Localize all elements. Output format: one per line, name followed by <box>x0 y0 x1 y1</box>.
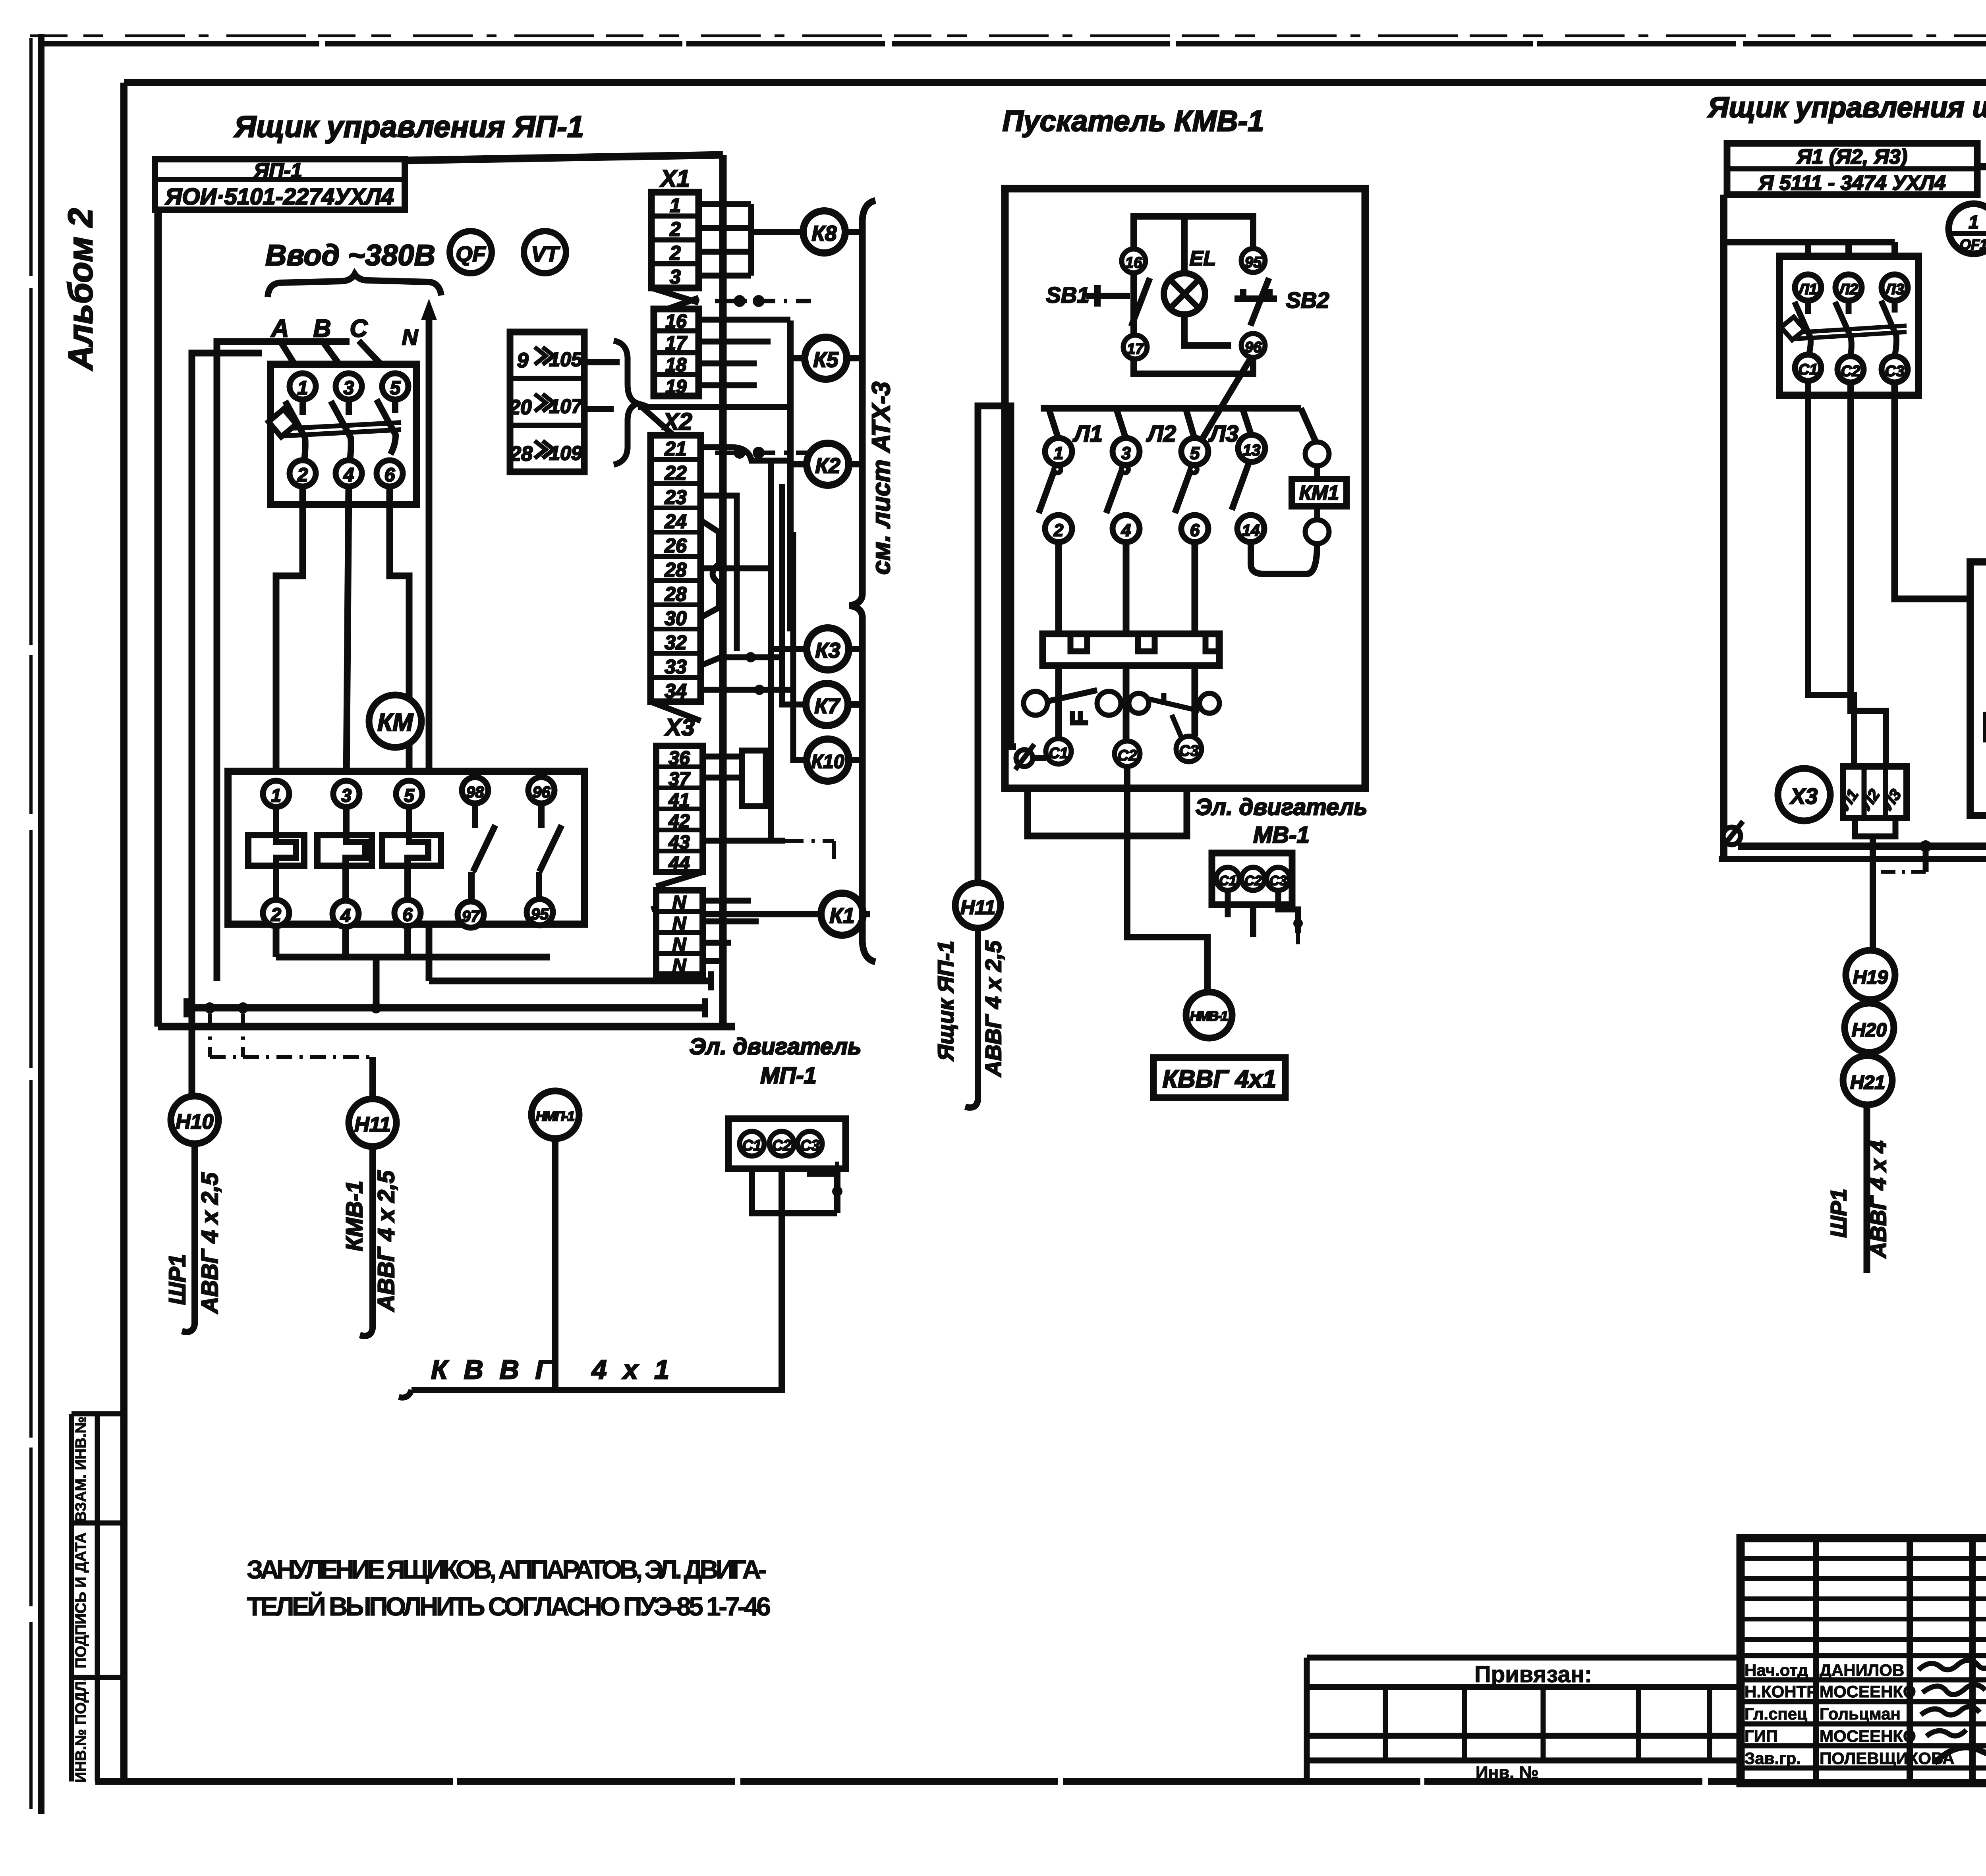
cable KVVG 4x1 run <box>399 1169 782 1397</box>
motor MV-1 title <box>1195 794 1367 848</box>
svg-text:5: 5 <box>390 378 401 399</box>
svg-text:Н19: Н19 <box>1853 967 1888 988</box>
breaker QF1 circle <box>1949 204 1986 254</box>
signature column texts <box>1745 1661 1955 1768</box>
svg-text:Ящик управления ЯП-1: Ящик управления ЯП-1 <box>234 110 584 144</box>
svg-text:Я 5111 - 3474 УХЛ4: Я 5111 - 3474 УХЛ4 <box>1758 172 1945 195</box>
KM terminals top <box>263 777 554 807</box>
lamp H19 <box>1846 950 1895 1000</box>
svg-text:6: 6 <box>384 465 395 486</box>
lamp H11 <box>342 1099 399 1336</box>
wire fuse to H19 <box>1870 836 1876 950</box>
svg-text:X3: X3 <box>1789 784 1818 809</box>
svg-text:95: 95 <box>1245 254 1262 271</box>
svg-text:К10: К10 <box>811 751 844 772</box>
contactor KM1 box <box>1970 562 1986 816</box>
svg-text:13: 13 <box>1243 442 1261 459</box>
svg-text:N: N <box>402 324 419 349</box>
svg-text:6: 6 <box>1190 521 1200 540</box>
N collector <box>429 971 711 990</box>
svg-text:Н.КОНТР.: Н.КОНТР. <box>1745 1682 1820 1701</box>
svg-text:Альбом 2: Альбом 2 <box>62 208 100 371</box>
svg-text:1: 1 <box>1969 212 1979 232</box>
thermal relay block <box>1043 634 1219 666</box>
QF pole terminals top 1 3 5 <box>290 373 408 400</box>
terminal strip X3 <box>651 714 703 977</box>
svg-text:Л3: Л3 <box>1884 281 1904 298</box>
svg-text:36: 36 <box>668 748 690 769</box>
svg-text:МВ-1: МВ-1 <box>1253 822 1310 848</box>
svg-text:Л2: Л2 <box>1838 281 1858 298</box>
svg-text:АВВГ 4 х 2,5: АВВГ 4 х 2,5 <box>197 1172 223 1314</box>
QF blades <box>269 400 401 460</box>
KM coil 1 <box>248 807 304 900</box>
KM aux contact 96-95 <box>539 803 562 899</box>
svg-text:С1: С1 <box>1049 745 1068 762</box>
QF1 terminals bottom <box>1795 355 1908 382</box>
wire 96 to pole 5 <box>1202 357 1251 440</box>
svg-text:МОСЕЕНКО: МОСЕЕНКО <box>1820 1682 1916 1701</box>
starter title KMV-1 <box>1003 104 1264 137</box>
svg-text:Л1: Л1 <box>1072 421 1103 447</box>
cable dashdot junction <box>715 295 811 459</box>
svg-text:X2: X2 <box>662 408 692 435</box>
svg-text:С3: С3 <box>1885 363 1905 380</box>
svg-text:ЯП-1: ЯП-1 <box>253 159 302 182</box>
transformer VT circle <box>524 231 566 273</box>
svg-text:Л3: Л3 <box>1208 421 1238 447</box>
svg-text:Зав.гр.: Зав.гр. <box>1745 1749 1801 1768</box>
dashdot drops to lamps <box>210 1013 373 1099</box>
svg-text:28: 28 <box>664 583 687 605</box>
relay stubs to cable line <box>845 232 870 914</box>
svg-text:К5: К5 <box>813 348 838 372</box>
feeder from YaP-1 <box>978 406 1016 883</box>
svg-text:Ящик ЯП-1: Ящик ЯП-1 <box>933 941 958 1062</box>
contact terminals row 2 <box>1045 515 1264 542</box>
breaker QF circle <box>450 231 492 273</box>
svg-text:КМ: КМ <box>377 709 413 736</box>
svg-text:ВЗАМ. ИНВ.№: ВЗАМ. ИНВ.№ <box>73 1417 89 1522</box>
KM coil 3 <box>382 807 441 900</box>
svg-text:2: 2 <box>669 218 681 240</box>
signatures <box>1918 1660 1986 1771</box>
album label <box>62 208 100 371</box>
svg-text:см. лист АТХ-3: см. лист АТХ-3 <box>867 382 895 575</box>
svg-text:N: N <box>672 913 687 934</box>
svg-text:Н11: Н11 <box>960 896 995 919</box>
cable boundary brace <box>850 201 875 962</box>
svg-text:К7: К7 <box>814 694 840 718</box>
box YaP-1 label plate <box>155 159 405 210</box>
svg-text:Л2: Л2 <box>1146 421 1176 447</box>
svg-text:Н20: Н20 <box>1852 1020 1887 1041</box>
svg-text:X3: X3 <box>664 714 694 741</box>
terminal 16 <box>1122 249 1146 273</box>
crossref arrow box 9-105 <box>508 332 584 472</box>
thermal aux contacts <box>1024 690 1219 743</box>
svg-text:С3: С3 <box>800 1137 820 1154</box>
X1 wiring <box>699 204 803 385</box>
KM aux contact 98-97 <box>471 803 495 901</box>
lamp NMP-1 <box>531 1091 579 1390</box>
svg-text:Пускатель КМВ-1: Пускатель КМВ-1 <box>1003 104 1264 137</box>
motor MP-1 wires <box>752 1160 842 1390</box>
wire from box row1 <box>584 359 620 365</box>
QF pole terminals bottom 2 4 6 <box>290 460 403 486</box>
cable tag KVVG4x1 <box>1153 1058 1285 1098</box>
coil KM1 <box>1292 442 1347 544</box>
svg-text:2: 2 <box>270 904 281 925</box>
svg-text:QF: QF <box>456 242 487 266</box>
wire QF6 to KM5 <box>390 486 409 781</box>
page top edge (spotty) <box>30 35 1986 37</box>
wires C1 C2 to fuses <box>1808 381 1886 766</box>
terminal 17 <box>1123 335 1147 359</box>
svg-text:44: 44 <box>668 853 690 874</box>
brace and arrow to X2 <box>614 341 694 465</box>
phase labels L1 L2 L3 <box>1072 421 1238 447</box>
svg-text:1: 1 <box>298 378 308 399</box>
svg-text:С2: С2 <box>1118 747 1137 764</box>
svg-text:С1: С1 <box>742 1137 762 1154</box>
button SB1 <box>1046 278 1150 326</box>
wire from box row2 <box>584 406 614 412</box>
title block frame <box>1741 1538 1986 1783</box>
terminal strip X2 <box>651 408 701 721</box>
wire N with arrow <box>421 299 437 981</box>
cable ShR1 4x4 <box>1826 1105 1891 1273</box>
svg-text:20: 20 <box>508 396 532 419</box>
wire 14 to coil <box>1251 542 1317 574</box>
svg-text:4: 4 <box>1121 521 1131 540</box>
terminal 95 <box>1241 249 1265 272</box>
svg-text:98: 98 <box>466 784 484 801</box>
svg-text:95: 95 <box>531 905 549 923</box>
svg-text:Ящик управления шестеренчаты: Ящик управления шестеренчатым компрессор… <box>1707 92 1986 124</box>
svg-text:33: 33 <box>665 656 687 678</box>
svg-text:НМВ-1: НМВ-1 <box>1190 1009 1228 1024</box>
lamp H21 <box>1843 1056 1892 1105</box>
svg-text:96: 96 <box>1245 339 1262 356</box>
QF1 feeder <box>1724 242 1895 274</box>
svg-text:АВВГ 4 х 2,5: АВВГ 4 х 2,5 <box>373 1170 399 1312</box>
svg-text:23: 23 <box>664 486 687 508</box>
svg-text:30: 30 <box>665 607 687 629</box>
svg-text:КВВГ 4х1: КВВГ 4х1 <box>431 1355 669 1385</box>
svg-text:Ввод ~380В: Ввод ~380В <box>265 239 435 272</box>
motor terminals C1 C2 C3 <box>1046 736 1202 766</box>
svg-text:АВВГ 4 х 2,5: АВВГ 4 х 2,5 <box>981 940 1006 1077</box>
svg-text:Гольцман: Гольцман <box>1820 1704 1901 1723</box>
box YaP-1 outline <box>158 155 735 1027</box>
svg-text:4: 4 <box>340 905 351 926</box>
starter bottom tray <box>1028 788 1187 836</box>
svg-text:N: N <box>672 892 687 913</box>
svg-text:1: 1 <box>670 194 681 216</box>
X3 wiring <box>703 751 834 981</box>
KM output wires <box>276 926 550 1013</box>
wire C <box>359 341 392 376</box>
svg-text:41: 41 <box>668 790 690 811</box>
button SB2 <box>1234 278 1329 326</box>
svg-text:С2: С2 <box>772 1137 792 1154</box>
svg-text:16: 16 <box>1125 255 1142 271</box>
svg-text:НМП-1: НМП-1 <box>536 1109 575 1124</box>
svg-text:107: 107 <box>549 395 583 417</box>
svg-text:ДАНИЛОВ: ДАНИЛОВ <box>1820 1661 1904 1679</box>
svg-text:ТЕЛЕЙ ВЫПОЛНИТЬ СОГЛАСНО ПУ: ТЕЛЕЙ ВЫПОЛНИТЬ СОГЛАСНО ПУЭ-85 1-7-46 <box>247 1591 771 1621</box>
svg-text:ПОДПИСЬ И ДАТА: ПОДПИСЬ И ДАТА <box>73 1532 89 1668</box>
lamp H10 <box>164 1096 223 1332</box>
svg-text:37: 37 <box>668 769 691 790</box>
svg-text:28: 28 <box>664 559 687 581</box>
motor MV-1 terminal box <box>1212 853 1292 905</box>
svg-text:19: 19 <box>665 376 687 398</box>
QF1 blades <box>1781 301 1907 356</box>
svg-text:109: 109 <box>549 442 582 464</box>
svg-text:ЯОИ·5101-2274УХЛ4: ЯОИ·5101-2274УХЛ4 <box>164 184 394 210</box>
svg-text:21: 21 <box>664 438 687 460</box>
section title YaP-1 <box>234 110 584 144</box>
wire A <box>280 341 301 374</box>
ground zero mark <box>1015 744 1046 770</box>
svg-text:АВВГ 4 х 4: АВВГ 4 х 4 <box>1866 1141 1891 1259</box>
svg-text:ГИП: ГИП <box>1745 1727 1778 1745</box>
see sheet ATX-3 <box>867 382 895 575</box>
motor MP-1 title <box>689 1034 861 1089</box>
svg-text:24: 24 <box>664 510 687 533</box>
svg-text:18: 18 <box>665 355 687 376</box>
svg-text:42: 42 <box>668 811 690 832</box>
svg-text:N: N <box>672 955 687 977</box>
X2 wiring <box>638 320 807 841</box>
svg-text:С2: С2 <box>1841 363 1860 380</box>
N bus <box>187 998 705 1017</box>
wire B <box>322 341 346 374</box>
connector X3 circle <box>1778 768 1830 821</box>
svg-text:2: 2 <box>669 242 681 264</box>
svg-text:16: 16 <box>665 311 687 332</box>
svg-text:К1: К1 <box>829 904 854 928</box>
motor MV-1 wires <box>1228 890 1303 949</box>
svg-text:N: N <box>672 934 687 955</box>
svg-text:SВ2: SВ2 <box>1286 288 1329 313</box>
svg-text:ЗАНУЛЕНИЕ ЯЩИКОВ, АППАРАТОВ,: ЗАНУЛЕНИЕ ЯЩИКОВ, АППАРАТОВ, ЭЛ. ДВИГА- <box>247 1555 767 1584</box>
terminal strip X1 <box>651 165 699 398</box>
svg-text:С1: С1 <box>1799 361 1818 378</box>
svg-text:6: 6 <box>402 904 413 925</box>
terminal 96 <box>1241 334 1265 357</box>
contactor KM circle <box>369 695 421 747</box>
wire QF4 to KM3 <box>346 486 349 781</box>
svg-text:Эл. двигатель: Эл. двигатель <box>1195 794 1367 820</box>
svg-text:Н10: Н10 <box>176 1110 213 1133</box>
svg-text:X1: X1 <box>659 165 690 192</box>
svg-text:МОСЕЕНКО: МОСЕЕНКО <box>1820 1727 1916 1745</box>
svg-text:КМВ-1: КМВ-1 <box>342 1181 367 1251</box>
svg-text:С1: С1 <box>1219 873 1236 888</box>
phase labels A B C N <box>270 315 419 349</box>
svg-text:С3: С3 <box>1179 743 1199 759</box>
svg-text:КМ1: КМ1 <box>1299 482 1339 504</box>
svg-text:Н11: Н11 <box>354 1113 391 1136</box>
feed bus <box>1041 408 1316 441</box>
motor MP-1 terminal box <box>728 1119 846 1169</box>
svg-text:С2: С2 <box>1244 873 1262 888</box>
svg-text:SВ1: SВ1 <box>1046 282 1090 307</box>
svg-text:43: 43 <box>668 832 690 853</box>
note text <box>247 1555 771 1621</box>
fuse block <box>1835 766 1907 836</box>
breaker QF1 box <box>1779 256 1918 395</box>
KM terminals bottom <box>263 899 553 928</box>
contact blades <box>1039 463 1249 513</box>
svg-text:Я1 (Я2, Я3): Я1 (Я2, Я3) <box>1796 145 1907 168</box>
lamp NMV-1 <box>1186 992 1232 1038</box>
feeder wire 1 <box>217 342 350 981</box>
zero bus <box>1719 840 1986 886</box>
pole wires down <box>1059 542 1195 741</box>
svg-text:QF1: QF1 <box>1960 236 1986 253</box>
svg-text:4: 4 <box>343 465 354 486</box>
lamp H11 mid <box>933 883 1006 1108</box>
wire QF2 to KM1 <box>276 486 303 781</box>
right section title <box>1707 92 1986 154</box>
left margin stamp cells <box>71 1414 124 1783</box>
control loop <box>1134 216 1253 374</box>
svg-text:ШР1: ШР1 <box>164 1254 190 1305</box>
svg-text:1: 1 <box>271 785 281 806</box>
svg-text:Гл.спец: Гл.спец <box>1745 1704 1807 1723</box>
svg-text:9: 9 <box>517 349 529 372</box>
svg-text:ИНВ.№ ПОДЛ.: ИНВ.№ ПОДЛ. <box>73 1677 89 1783</box>
svg-text:C: C <box>350 315 368 342</box>
svg-text:VT: VT <box>531 242 560 266</box>
starter box outline <box>1005 189 1365 788</box>
svg-text:3: 3 <box>344 378 354 399</box>
box Ya1 label plate <box>1727 143 1977 195</box>
wire C3 to KM1 poles <box>1895 382 1986 617</box>
svg-text:17: 17 <box>1127 341 1144 357</box>
breaker QF box <box>270 364 416 504</box>
feeder wire 2 <box>192 353 262 1095</box>
svg-text:2: 2 <box>297 465 308 486</box>
svg-text:К3: К3 <box>815 639 840 662</box>
svg-text:Инв. №: Инв. № <box>1476 1763 1539 1782</box>
svg-text:105: 105 <box>549 348 583 371</box>
svg-text:МП-1: МП-1 <box>760 1063 817 1089</box>
svg-text:22: 22 <box>664 462 687 484</box>
svg-text:3: 3 <box>1121 444 1131 463</box>
svg-text:Нач.отд: Нач.отд <box>1745 1661 1808 1679</box>
svg-text:К2: К2 <box>815 454 840 478</box>
svg-text:Л1: Л1 <box>1797 281 1817 298</box>
svg-text:5: 5 <box>1190 444 1200 463</box>
svg-text:17: 17 <box>665 333 688 354</box>
svg-text:28: 28 <box>509 442 533 465</box>
brace under Vvod <box>268 274 441 297</box>
KM coil 2 <box>317 807 372 901</box>
box Ya1 outline <box>1724 167 1986 859</box>
svg-text:К8: К8 <box>811 222 837 245</box>
zero mark <box>1722 821 1743 847</box>
relay circles K8 K5 K2 K3 K7 K10 K1 <box>803 211 845 253</box>
svg-text:EL: EL <box>1190 247 1216 270</box>
svg-text:Эл. двигатель: Эл. двигатель <box>689 1034 861 1060</box>
svg-text:26: 26 <box>664 535 687 557</box>
svg-text:5: 5 <box>404 785 415 806</box>
svg-text:ШР1: ШР1 <box>1826 1189 1851 1237</box>
svg-text:3: 3 <box>670 266 681 288</box>
svg-text:С3: С3 <box>1269 873 1287 888</box>
contact terminals row 1 <box>1045 435 1265 465</box>
label Vvod 380V <box>265 239 435 272</box>
svg-text:96: 96 <box>533 784 551 801</box>
svg-text:32: 32 <box>665 631 687 654</box>
svg-text:Н21: Н21 <box>1850 1072 1885 1093</box>
svg-text:2: 2 <box>1053 521 1064 540</box>
svg-text:1: 1 <box>1054 444 1063 463</box>
contactor KM box <box>228 771 584 924</box>
svg-text:КВВГ 4х1: КВВГ 4х1 <box>1163 1065 1276 1093</box>
svg-text:Привязан:: Привязан: <box>1474 1662 1592 1687</box>
svg-text:3: 3 <box>341 785 352 806</box>
svg-text:14: 14 <box>1242 522 1260 539</box>
privyazan block <box>1307 1658 1741 1782</box>
lamp H20 <box>1845 1003 1894 1052</box>
svg-text:34: 34 <box>665 680 687 702</box>
wire C2 down <box>1127 766 1253 992</box>
QF1 terminals top <box>1795 274 1908 301</box>
lamp EL <box>1164 247 1216 315</box>
svg-text:ПОЛЕВЩИКОВА: ПОЛЕВЩИКОВА <box>1820 1749 1955 1768</box>
svg-text:97: 97 <box>462 908 480 925</box>
